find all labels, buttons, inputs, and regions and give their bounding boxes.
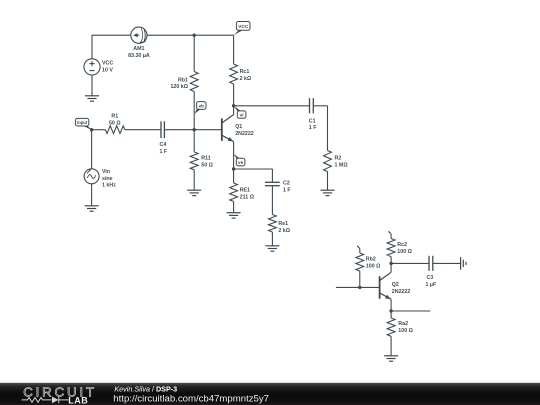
node Input flag <box>75 118 92 130</box>
svg-text:C3: C3 <box>427 275 434 281</box>
wire Ra2 top lead <box>390 311 392 318</box>
wire R1 to C4 <box>125 129 161 131</box>
node collector Q1 <box>232 104 235 107</box>
resistor Rc1 <box>230 64 252 84</box>
svg-text:Q1: Q1 <box>235 124 242 130</box>
wire collector node to C3 <box>391 262 429 264</box>
node emitter junction Q2 <box>389 309 392 312</box>
wire Re1 to ground <box>271 232 273 246</box>
voltage source Vin <box>84 169 116 189</box>
wire top rail left segment <box>92 34 131 36</box>
svg-text:Rb2: Rb2 <box>366 257 376 263</box>
wire C2 to Re1 <box>271 186 273 215</box>
node junction top rail / Rb1 <box>193 34 196 37</box>
ground below Re1 <box>265 246 279 251</box>
wire top rail right segment <box>147 34 234 36</box>
wire Vin to ground <box>91 184 93 206</box>
wire Rb2 top stub <box>357 246 360 253</box>
wire Rc1 bottom lead <box>233 84 235 106</box>
node vb flag <box>194 102 206 114</box>
wire VCC source branch <box>91 35 93 59</box>
svg-text:83.30 µA: 83.30 µA <box>128 53 150 59</box>
svg-text:120 kΩ: 120 kΩ <box>170 84 188 90</box>
svg-text:R1: R1 <box>111 114 118 120</box>
svg-text:50 Ω: 50 Ω <box>201 162 213 168</box>
svg-text:AM1: AM1 <box>133 46 144 52</box>
svg-text:R2: R2 <box>335 156 342 162</box>
capacitor C4 <box>160 121 168 155</box>
capacitor C3 <box>426 256 437 288</box>
wire Rc2 bottom lead <box>390 257 392 264</box>
wire R2 to ground <box>327 172 329 191</box>
svg-text:Ra2: Ra2 <box>398 321 408 327</box>
resistor Rb2 <box>356 253 381 271</box>
capacitor C1 <box>309 98 317 131</box>
svg-text:VCC: VCC <box>102 61 113 67</box>
wire down to C2 <box>271 169 273 182</box>
svg-text:1 F: 1 F <box>160 149 168 155</box>
node collector Q2 <box>389 262 392 265</box>
resistor Rb1 <box>170 72 198 92</box>
node vi flag <box>234 106 246 119</box>
CircuitLab logo <box>22 385 97 405</box>
svg-text:Q2: Q2 <box>392 282 399 288</box>
svg-text:http://circuitlab.com/cb47mpmn: http://circuitlab.com/cb47mpmntz5y7 <box>113 393 269 404</box>
svg-text:C2: C2 <box>283 180 290 186</box>
svg-text:LAB: LAB <box>68 395 88 405</box>
resistor R11 <box>190 152 213 170</box>
node junction base wire / Rb1-R11 <box>193 128 196 131</box>
svg-text:2N2222: 2N2222 <box>235 131 254 137</box>
ground below VCC source <box>85 96 99 101</box>
svg-text:50 Ω: 50 Ω <box>109 120 121 126</box>
wire RE1 to ground <box>233 202 235 213</box>
footer credit text <box>113 384 269 404</box>
svg-text:Rc2: Rc2 <box>397 242 407 248</box>
wire emitter node to C2 <box>234 168 273 170</box>
svg-text:100 Ω: 100 Ω <box>397 249 412 255</box>
voltage source VCC <box>84 59 113 75</box>
ground below Vin <box>85 206 99 211</box>
ground below R11 <box>187 190 201 195</box>
svg-text:1 F: 1 F <box>283 187 291 193</box>
svg-text:Re1: Re1 <box>278 221 288 227</box>
wire Rb2 bottom lead <box>359 271 361 287</box>
footer bar <box>0 383 540 405</box>
transistor Q1 2N2222 <box>222 106 254 169</box>
capacitor C2 <box>265 180 291 193</box>
ground right of C3 <box>461 257 466 270</box>
wire Ra2 to ground <box>390 336 392 356</box>
svg-text:Kevin.Silva / DSP-3: Kevin.Silva / DSP-3 <box>114 384 177 393</box>
svg-text:Rc1: Rc1 <box>240 69 250 75</box>
wire C4 to Q1 base <box>164 129 221 131</box>
node emitter junction Q1 <box>232 167 235 170</box>
svg-text:2N2222: 2N2222 <box>392 289 411 295</box>
resistor Re1 <box>269 215 291 234</box>
svg-text:C4: C4 <box>160 142 167 148</box>
svg-text:VCC: VCC <box>238 24 249 29</box>
node input junction <box>90 128 93 131</box>
wire collector node to C1 <box>234 105 310 107</box>
svg-text:RE1: RE1 <box>240 188 250 194</box>
wire input to R1 <box>92 129 106 131</box>
transistor Q2 2N2222 <box>380 263 411 311</box>
wire Rb1 bottom lead <box>193 92 195 130</box>
wire VCC source to ground <box>91 75 93 96</box>
svg-text:211 Ω: 211 Ω <box>240 195 255 201</box>
svg-text:1 MΩ: 1 MΩ <box>335 163 349 169</box>
node VCC flag <box>234 22 250 36</box>
ground below R2 <box>321 190 335 195</box>
svg-text:1 µF: 1 µF <box>426 282 437 288</box>
node ve flag <box>234 154 245 166</box>
svg-text:C1: C1 <box>309 118 316 124</box>
svg-text:1 F: 1 F <box>309 125 317 131</box>
ammeter AM1 <box>128 27 150 59</box>
wire emitter stub right <box>391 310 430 312</box>
wire Rb1 top lead <box>193 35 195 71</box>
resistor RE1 <box>230 183 255 202</box>
svg-text:Input: Input <box>77 120 88 125</box>
resistor R1 <box>105 114 124 134</box>
svg-text:100 Ω: 100 Ω <box>398 328 413 334</box>
wire C1 to R2 corner <box>313 106 327 151</box>
wire C3 to ground <box>433 262 461 264</box>
svg-text:vi: vi <box>240 113 244 118</box>
svg-text:Vin: Vin <box>102 169 110 175</box>
svg-text:100 Ω: 100 Ω <box>366 263 381 269</box>
wire RE1 top lead <box>233 169 235 183</box>
resistor R2 <box>324 151 349 172</box>
resistor Ra2 <box>387 318 413 336</box>
svg-text:vb: vb <box>199 103 205 108</box>
wire input column down to Vin <box>91 130 93 169</box>
node junction Rb2 / base wire <box>358 286 361 289</box>
wire Rc1 top lead <box>233 35 235 64</box>
wire R11 to ground <box>193 170 195 190</box>
svg-text:R11: R11 <box>201 155 210 161</box>
ground below RE1 <box>227 213 241 218</box>
wire Q2 base <box>336 286 380 288</box>
svg-text:10 V: 10 V <box>102 68 113 74</box>
svg-text:sine: sine <box>102 176 113 182</box>
svg-text:ve: ve <box>238 160 244 165</box>
svg-text:1 kHz: 1 kHz <box>102 183 116 189</box>
svg-text:Rb1: Rb1 <box>178 77 188 83</box>
resistor Rc2 <box>387 239 412 257</box>
svg-text:2 kΩ: 2 kΩ <box>278 228 290 234</box>
ground below Ra2 <box>384 356 398 361</box>
wire R11 top lead <box>193 130 195 152</box>
svg-text:2 kΩ: 2 kΩ <box>240 76 252 82</box>
wire Rc2 top stub <box>388 231 391 238</box>
